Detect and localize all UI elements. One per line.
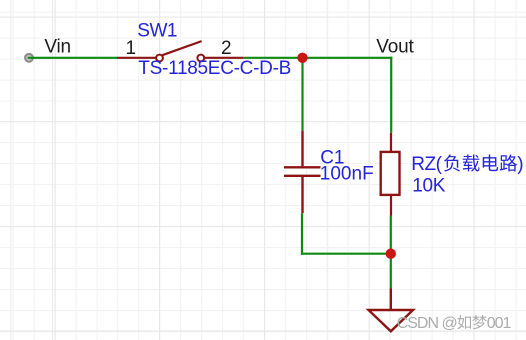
ground lead [390, 289, 392, 311]
wire Vout corner down to RZ top [390, 57, 392, 133]
capacitor C1 top plate [284, 166, 321, 168]
terminal port Vin [25, 54, 33, 62]
svg-text:Vout: Vout [376, 36, 414, 57]
resistor RZ top lead [390, 133, 392, 152]
svg-text:TS-1185EC-C-D-B: TS-1185EC-C-D-B [138, 58, 291, 79]
ground symbol [369, 310, 414, 331]
svg-text:RZ(: RZ( [411, 154, 442, 175]
wire bottom junction to ground [390, 254, 392, 289]
node junction bottom rail [386, 249, 396, 259]
svg-text:): ) [517, 154, 523, 175]
svg-text:1: 1 [126, 38, 137, 59]
svg-text:10K: 10K [412, 175, 446, 196]
svg-text:001: 001 [487, 315, 512, 332]
switch SW1 right contact circle [197, 55, 204, 62]
wire RZ bottom to bottom junction [390, 216, 392, 254]
switch SW1 pin 2 lead [205, 57, 243, 59]
resistor RZ body [381, 152, 400, 195]
svg-text:100nF: 100nF [320, 164, 374, 185]
resistor RZ bottom lead [390, 195, 392, 216]
wire SW1 pin2 to Vout corner [243, 57, 392, 59]
switch SW1 left contact circle [156, 55, 163, 62]
designator RZ(负载电路) [411, 154, 523, 175]
wire C1 bottom down to bottom rail [301, 213, 303, 255]
wire node A down to C1 top [301, 58, 303, 131]
svg-text:SW1: SW1 [137, 21, 177, 42]
watermark CSDN @如梦001 [397, 315, 512, 332]
wire Vin to SW1 pin1 [28, 57, 117, 59]
capacitor C1 top lead [301, 131, 303, 167]
svg-text:CSDN @: CSDN @ [397, 315, 457, 332]
capacitor C1 bottom plate [284, 175, 321, 177]
switch SW1 pin 1 lead [117, 57, 156, 59]
switch SW1 lever [162, 41, 201, 55]
capacitor C1 bottom lead [301, 177, 303, 213]
svg-text:2: 2 [221, 38, 232, 59]
wire bottom rail horizontal [301, 253, 391, 255]
node junction at Vout/C1 tap [297, 53, 307, 63]
svg-text:Vin: Vin [44, 36, 71, 57]
